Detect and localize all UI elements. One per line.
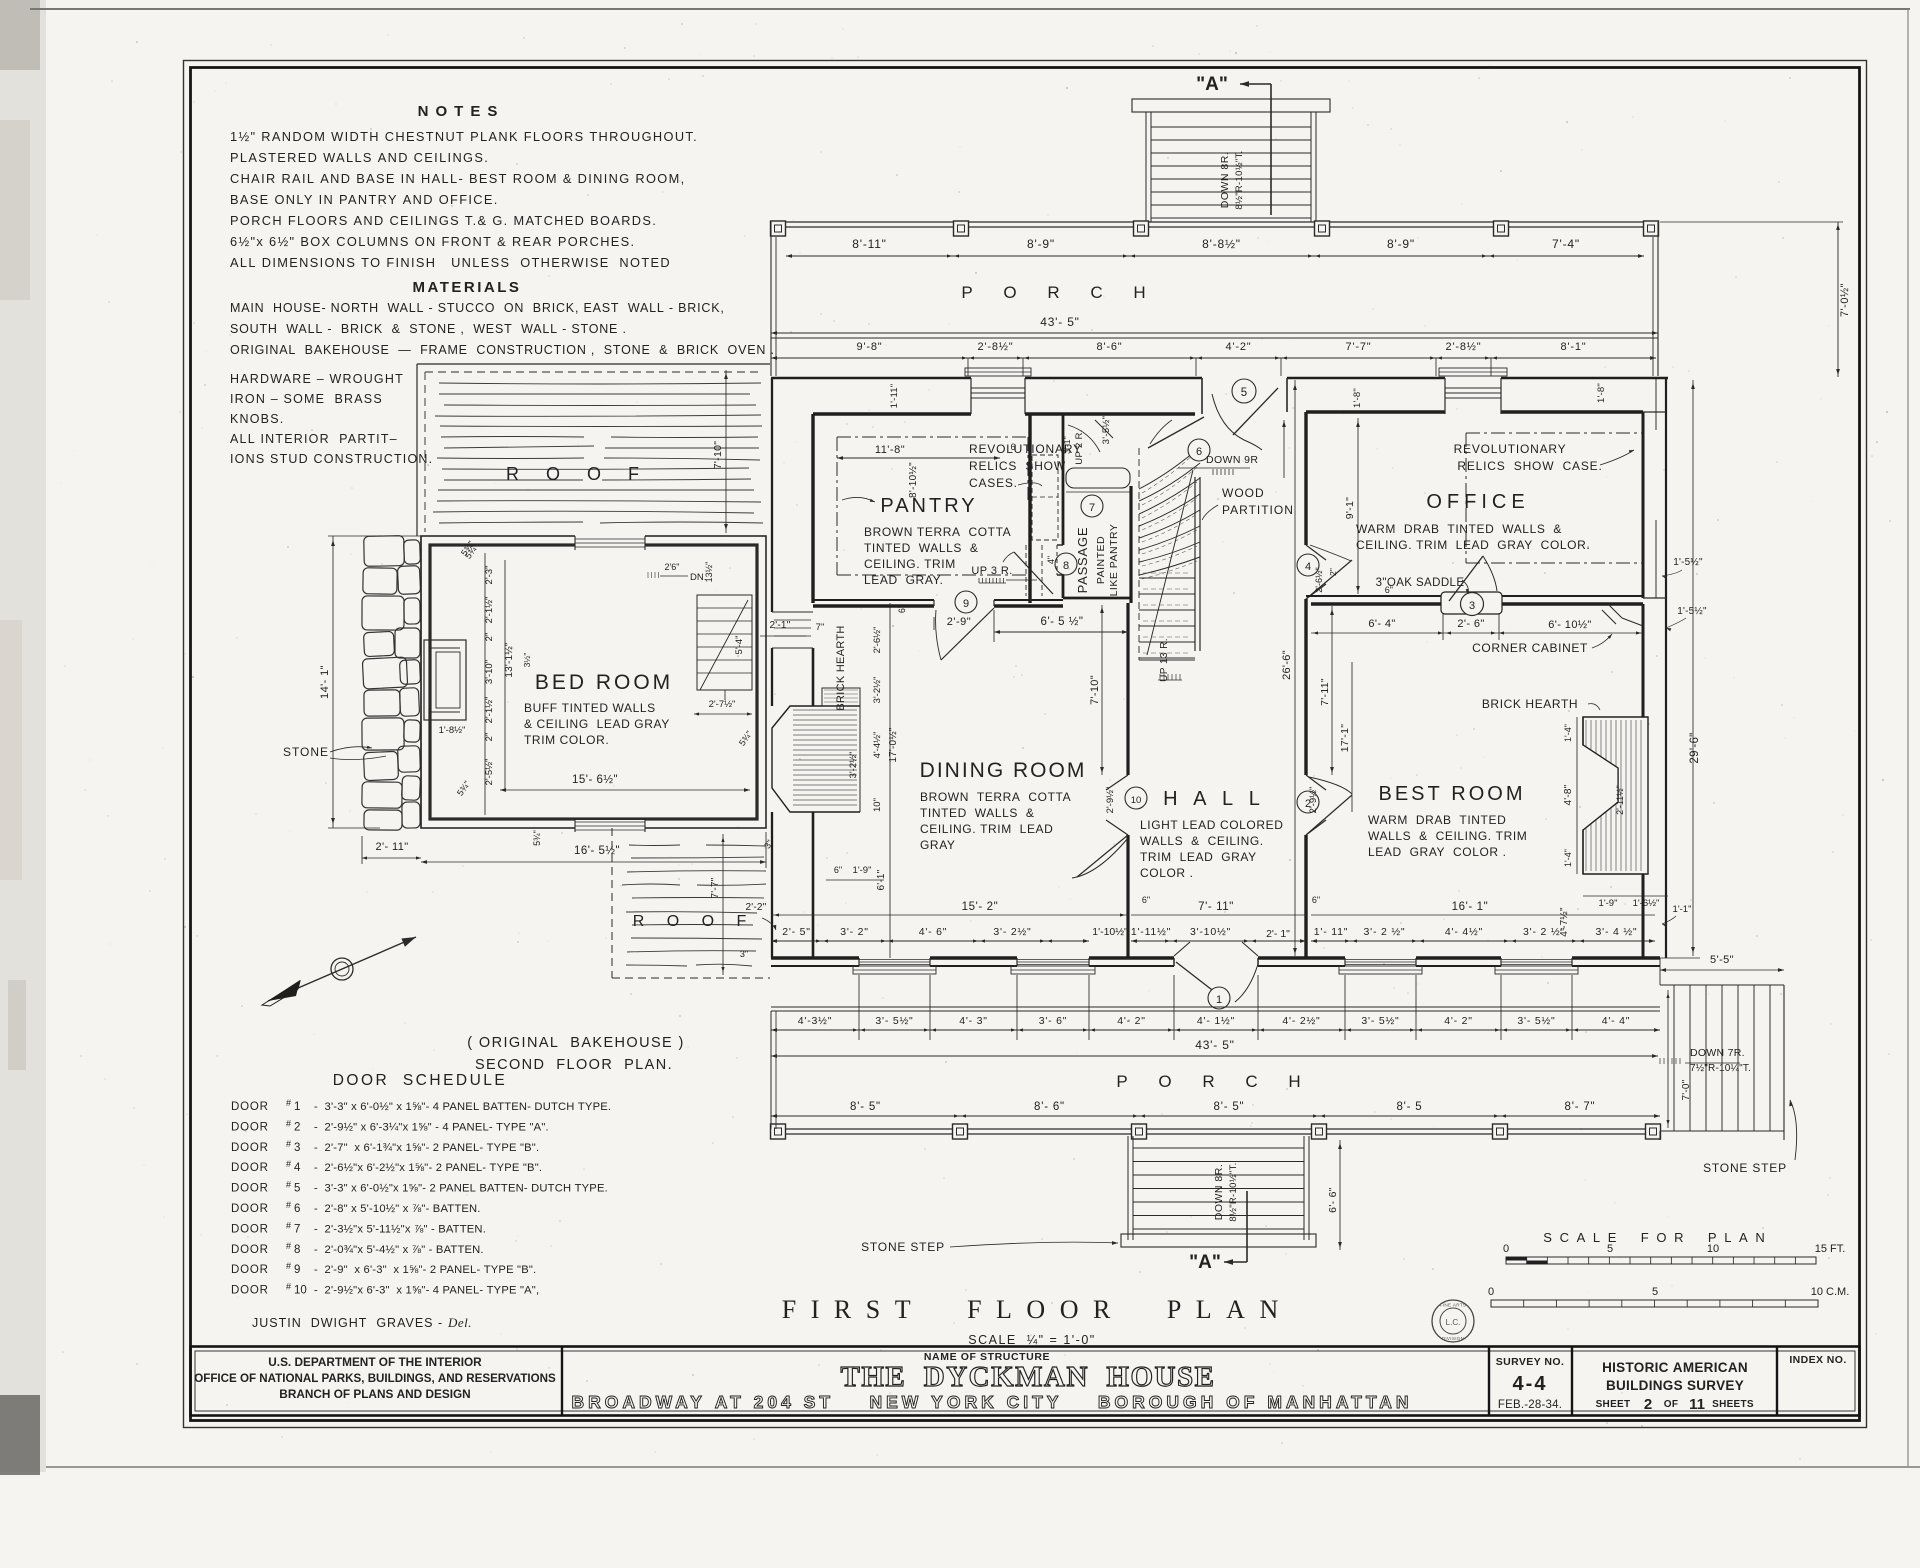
svg-text:7": 7" <box>816 622 825 633</box>
svg-text:Del.: Del. <box>447 1315 472 1330</box>
svg-text:SCALE ¼" = 1'-0": SCALE ¼" = 1'-0" <box>968 1333 1095 1347</box>
svg-text:5: 5 <box>294 1183 300 1195</box>
svg-text:MATERIALS: MATERIALS <box>413 279 522 296</box>
svg-text:TINTED WALLS &: TINTED WALLS & <box>864 541 979 555</box>
svg-text:16'- 5½": 16'- 5½" <box>574 845 620 857</box>
svg-text:TRIM COLOR.: TRIM COLOR. <box>524 733 609 747</box>
svg-text:4'- 2½": 4'- 2½" <box>1282 1015 1320 1027</box>
svg-text:OFFICE: OFFICE <box>1426 491 1529 513</box>
svg-text:4'- 2": 4'- 2" <box>1444 1015 1473 1027</box>
svg-text:1'- 11": 1'- 11" <box>1314 926 1349 938</box>
svg-text:1'-11½": 1'-11½" <box>1131 926 1171 938</box>
svg-text:PORCH FLOORS AND CEILINGS T.&: PORCH FLOORS AND CEILINGS T.& G. MATCHED… <box>230 213 657 228</box>
svg-text:1'-5½": 1'-5½" <box>1673 557 1703 568</box>
svg-text:4'- 3": 4'- 3" <box>959 1015 988 1027</box>
svg-text:SURVEY NO.: SURVEY NO. <box>1496 1356 1565 1368</box>
svg-text:BRICK HEARTH: BRICK HEARTH <box>1482 697 1578 711</box>
svg-text:6'- 5 ½": 6'- 5 ½" <box>1041 616 1084 628</box>
svg-text:2'-2": 2'-2" <box>746 902 767 913</box>
svg-text:15'- 6½": 15'- 6½" <box>572 774 618 786</box>
svg-text:6": 6" <box>834 865 842 875</box>
svg-text:S C A L E F O R P L A N: S C A L E F O R P L A N <box>1543 1230 1766 1245</box>
svg-text:13'-1½": 13'-1½" <box>504 642 515 677</box>
svg-text:"A": "A" <box>1196 74 1228 95</box>
svg-text:CEILING. TRIM LEAD: CEILING. TRIM LEAD <box>920 822 1053 836</box>
svg-text:0: 0 <box>1503 1243 1509 1255</box>
svg-text:#: # <box>286 1159 291 1169</box>
svg-text:1'-1": 1'-1" <box>1673 904 1692 915</box>
svg-text:DOWN 8R.: DOWN 8R. <box>1219 152 1231 209</box>
svg-text:1'-9": 1'-9" <box>1599 898 1618 909</box>
svg-text:6: 6 <box>1196 446 1202 458</box>
svg-text:11'-8": 11'-8" <box>875 444 905 456</box>
svg-text:2'- 6": 2'- 6" <box>1457 618 1484 630</box>
svg-text:NOTES: NOTES <box>418 103 505 120</box>
svg-text:RELICS SHOW: RELICS SHOW <box>969 459 1066 473</box>
svg-text:ALL INTERIOR PARTIT–: ALL INTERIOR PARTIT– <box>230 432 398 446</box>
svg-text:SECOND FLOOR PLAN.: SECOND FLOOR PLAN. <box>475 1057 673 1073</box>
svg-text:"A": "A" <box>1189 1252 1221 1273</box>
svg-text:RELICS SHOW CASE.: RELICS SHOW CASE. <box>1457 459 1602 473</box>
svg-text:DOOR: DOOR <box>231 1203 269 1215</box>
svg-text:GRAY: GRAY <box>920 838 956 852</box>
svg-text:2'-9": 2'-9" <box>947 616 971 628</box>
svg-text:BUFF TINTED WALLS: BUFF TINTED WALLS <box>524 701 656 715</box>
svg-text:CEILING. TRIM LEAD GRAY COL: CEILING. TRIM LEAD GRAY COLOR. <box>1356 538 1590 552</box>
svg-text:WARM DRAB TINTED WALLS &: WARM DRAB TINTED WALLS & <box>1356 522 1562 536</box>
svg-text:26'-6": 26'-6" <box>1281 650 1293 680</box>
svg-text:DOOR: DOOR <box>231 1244 269 1256</box>
svg-text:7'-7": 7'-7" <box>710 877 721 898</box>
svg-text:BASE ONLY IN PANTRY AND OFFICE: BASE ONLY IN PANTRY AND OFFICE. <box>230 192 499 207</box>
svg-text:L.C.: L.C. <box>1446 1318 1461 1327</box>
svg-text:5'-4": 5'-4" <box>734 636 745 655</box>
svg-text:R O O F: R O O F <box>633 913 756 930</box>
svg-text:R O O F: R O O F <box>506 464 650 484</box>
svg-text:- 2'-0¾"x 5'-4½" x ⅞" - BATTE: - 2'-0¾"x 5'-4½" x ⅞" - BATTEN. <box>314 1244 484 1256</box>
svg-text:REVOLUTIONARY: REVOLUTIONARY <box>969 442 1082 456</box>
svg-text:STONE STEP: STONE STEP <box>1703 1161 1787 1175</box>
svg-text:1½" RANDOM WIDTH CHESTNUT PLAN: 1½" RANDOM WIDTH CHESTNUT PLANK FLOORS T… <box>230 129 698 144</box>
svg-text:INDEX NO.: INDEX NO. <box>1789 1354 1846 1366</box>
svg-text:REVOLUTIONARY: REVOLUTIONARY <box>1454 442 1567 456</box>
svg-text:P O R C H: P O R C H <box>961 283 1158 302</box>
svg-text:P O R C H: P O R C H <box>1116 1072 1313 1091</box>
svg-text:6½"x 6½" BOX COLUMNS ON FRONT: 6½"x 6½" BOX COLUMNS ON FRONT & REAR POR… <box>230 234 635 249</box>
svg-text:4'- 4": 4'- 4" <box>1602 1015 1631 1027</box>
svg-text:4'- 6": 4'- 6" <box>919 926 948 938</box>
svg-text:10 C.M.: 10 C.M. <box>1811 1286 1850 1298</box>
svg-text:2'- 5": 2'- 5" <box>782 926 811 938</box>
svg-text:STONE: STONE <box>283 745 329 759</box>
svg-text:FINE ARTS: FINE ARTS <box>1440 1303 1467 1308</box>
svg-text:4'-2": 4'-2" <box>1226 341 1252 353</box>
svg-text:- 2'-9" x 6'-3" x 1⅝"- 2 PA: - 2'-9" x 6'-3" x 1⅝"- 2 PANEL- TYPE "B"… <box>314 1264 536 1276</box>
svg-text:#: # <box>286 1261 291 1271</box>
svg-text:2'-3": 2'-3" <box>484 566 495 585</box>
svg-text:SHEETS: SHEETS <box>1712 1399 1754 1410</box>
svg-text:7'-10": 7'-10" <box>1089 675 1101 705</box>
svg-text:5¾": 5¾" <box>532 830 542 846</box>
svg-text:BRICK HEARTH: BRICK HEARTH <box>835 625 847 710</box>
svg-text:TINTED WALLS &: TINTED WALLS & <box>920 806 1035 820</box>
svg-text:PASSAGE: PASSAGE <box>1075 527 1090 594</box>
svg-text:0: 0 <box>1488 1286 1494 1298</box>
svg-text:2'-1": 2'-1" <box>770 620 791 631</box>
svg-text:6": 6" <box>1142 895 1150 905</box>
svg-text:2": 2" <box>1328 568 1338 576</box>
svg-text:9'-1": 9'-1" <box>1344 497 1356 519</box>
svg-text:2'-1½": 2'-1½" <box>484 597 495 624</box>
svg-text:DOOR: DOOR <box>231 1162 269 1174</box>
svg-text:#: # <box>286 1098 291 1108</box>
svg-text:1'-8": 1'-8" <box>1352 388 1363 408</box>
svg-text:8'-11": 8'-11" <box>852 237 886 251</box>
svg-text:14'- 1": 14'- 1" <box>319 665 331 699</box>
svg-text:10: 10 <box>294 1285 307 1297</box>
svg-text:DOOR: DOOR <box>231 1101 269 1113</box>
svg-text:- 3'-3" x 6'-0½" x 1⅝"- 4 PAN: - 3'-3" x 6'-0½" x 1⅝"- 4 PANEL BATTEN- … <box>314 1101 611 1113</box>
svg-text:3'- 6": 3'- 6" <box>1039 1015 1068 1027</box>
svg-text:3'- 4 ½": 3'- 4 ½" <box>1596 926 1638 938</box>
svg-text:DOOR SCHEDULE: DOOR SCHEDULE <box>333 1072 508 1089</box>
svg-text:9: 9 <box>294 1264 300 1276</box>
svg-text:1'-8½": 1'-8½" <box>439 725 466 736</box>
svg-text:1'-4": 1'-4" <box>1563 849 1573 867</box>
svg-text:43'- 5": 43'- 5" <box>1195 1038 1235 1052</box>
svg-text:7½"R-10¼"T.: 7½"R-10¼"T. <box>1690 1062 1751 1074</box>
svg-text:2": 2" <box>484 733 495 742</box>
svg-text:3: 3 <box>1469 600 1475 612</box>
svg-text:2'-6½": 2'-6½" <box>872 627 883 654</box>
svg-text:2'-8½": 2'-8½" <box>1446 341 1482 353</box>
svg-text:7'-0": 7'-0" <box>1681 1079 1692 1100</box>
svg-text:BEST ROOM: BEST ROOM <box>1378 783 1525 805</box>
svg-text:3'-2½": 3'-2½" <box>872 677 883 704</box>
svg-text:- 2'-9½" x 6'-3¼"x 1⅝" - 4 PA: - 2'-9½" x 6'-3¼"x 1⅝" - 4 PANEL- TYPE "… <box>314 1121 549 1133</box>
svg-text:7'- 11": 7'- 11" <box>1198 901 1234 913</box>
svg-text:1'-4": 1'-4" <box>1563 724 1573 742</box>
svg-text:IONS STUD CONSTRUCTION.: IONS STUD CONSTRUCTION. <box>230 452 433 466</box>
svg-text:- 3'-3" x 6'-0½"x 1⅝"- 2 PANE: - 3'-3" x 6'-0½"x 1⅝"- 2 PANEL BATTEN- D… <box>314 1183 608 1195</box>
svg-text:3'- 5½": 3'- 5½" <box>1517 1015 1555 1027</box>
svg-text:6'- 6": 6'- 6" <box>1327 1187 1339 1213</box>
svg-text:DOOR: DOOR <box>231 1223 269 1235</box>
svg-text:15 FT.: 15 FT. <box>1815 1243 1846 1255</box>
svg-text:2'-1½": 2'-1½" <box>484 697 495 724</box>
svg-text:2'- 1": 2'- 1" <box>1266 928 1290 940</box>
svg-text:8'- 5": 8'- 5" <box>1214 1101 1245 1113</box>
svg-text:4'-8": 4'-8" <box>1563 784 1574 805</box>
svg-text:PLASTERED WALLS AND CEILINGS.: PLASTERED WALLS AND CEILINGS. <box>230 150 489 165</box>
svg-text:CASES.: CASES. <box>969 476 1018 490</box>
svg-text:CEILING. TRIM: CEILING. TRIM <box>864 557 956 571</box>
svg-text:DIVISION: DIVISION <box>1442 1336 1465 1341</box>
svg-text:6'- 10½": 6'- 10½" <box>1548 619 1591 631</box>
svg-text:HISTORIC AMERICAN: HISTORIC AMERICAN <box>1602 1360 1748 1375</box>
svg-text:( ORIGINAL BAKEHOUSE ): ( ORIGINAL BAKEHOUSE ) <box>467 1035 685 1051</box>
svg-text:10: 10 <box>1707 1243 1719 1255</box>
svg-text:F I R S T F L O O R P: F I R S T F L O O R P L A N <box>782 1295 1282 1324</box>
svg-text:7'-7": 7'-7" <box>1346 341 1372 353</box>
svg-text:CORNER CABINET: CORNER CABINET <box>1472 641 1588 655</box>
svg-text:PANTRY: PANTRY <box>880 495 977 517</box>
svg-text:1'-11": 1'-11" <box>889 384 900 409</box>
svg-text:ALL DIMENSIONS TO FINISH UNL: ALL DIMENSIONS TO FINISH UNLESS OTHERWIS… <box>230 255 671 270</box>
svg-text:3½": 3½" <box>522 653 532 668</box>
svg-text:3'-10½": 3'-10½" <box>1190 926 1231 938</box>
svg-text:#: # <box>286 1139 291 1149</box>
svg-text:4": 4" <box>1046 556 1056 564</box>
svg-text:FEB.-28-34.: FEB.-28-34. <box>1498 1399 1562 1411</box>
svg-text:- 2'-3½"x 5'-11½"x ⅞" - BATTE: - 2'-3½"x 5'-11½"x ⅞" - BATTEN. <box>314 1223 486 1235</box>
svg-text:9'-8": 9'-8" <box>857 341 883 353</box>
svg-text:1'-9": 1'-9" <box>853 865 872 876</box>
svg-text:2'- 11": 2'- 11" <box>375 841 408 853</box>
svg-text:6'- 4": 6'- 4" <box>1368 618 1395 630</box>
svg-text:8'- 6": 8'- 6" <box>1034 1101 1065 1113</box>
svg-text:DOWN 9R: DOWN 9R <box>1206 454 1258 466</box>
svg-text:WARM DRAB TINTED: WARM DRAB TINTED <box>1368 813 1506 827</box>
svg-text:8'- 7": 8'- 7" <box>1565 1101 1596 1113</box>
svg-text:LEAD GRAY COLOR .: LEAD GRAY COLOR . <box>1368 845 1507 859</box>
svg-text:DOOR: DOOR <box>231 1142 269 1154</box>
svg-text:3'- 2": 3'- 2" <box>840 926 869 938</box>
svg-text:8½"R-10½"T.: 8½"R-10½"T. <box>1234 150 1245 209</box>
svg-text:#: # <box>286 1118 291 1128</box>
svg-text:BROWN TERRA COTTA: BROWN TERRA COTTA <box>920 790 1071 804</box>
svg-text:5: 5 <box>1607 1243 1613 1255</box>
svg-text:H A L L: H A L L <box>1163 788 1265 810</box>
svg-text:2'-8½": 2'-8½" <box>978 341 1014 353</box>
svg-text:IRON – SOME BRASS: IRON – SOME BRASS <box>230 392 383 406</box>
svg-text:3'- 2 ½": 3'- 2 ½" <box>1523 926 1565 938</box>
svg-text:BUILDINGS SURVEY: BUILDINGS SURVEY <box>1606 1378 1744 1393</box>
svg-text:SHEET: SHEET <box>1596 1399 1631 1410</box>
svg-text:7: 7 <box>1089 502 1095 514</box>
svg-text:MAIN HOUSE- NORTH WALL - STU: MAIN HOUSE- NORTH WALL - STUCCO ON BRICK… <box>230 301 725 315</box>
svg-text:8'-8½": 8'-8½" <box>1202 237 1241 251</box>
svg-text:- 2'-6½"x 6'-2½"x 1⅝"- 2 PANE: - 2'-6½"x 6'-2½"x 1⅝"- 2 PANEL- TYPE "B"… <box>314 1162 542 1174</box>
svg-text:2: 2 <box>1644 1396 1652 1413</box>
svg-text:2'-6½": 2'-6½" <box>1314 567 1324 592</box>
svg-text:4'- 4½": 4'- 4½" <box>1445 926 1483 938</box>
svg-text:DINING ROOM: DINING ROOM <box>920 759 1087 782</box>
svg-text:7'-11": 7'-11" <box>1319 678 1331 706</box>
svg-text:3'- 5½": 3'- 5½" <box>875 1015 913 1027</box>
svg-text:3'- 5½": 3'- 5½" <box>1361 1015 1399 1027</box>
svg-text:- 2'-7" x 6'-1¾"x 1⅝"- 2 PAN: - 2'-7" x 6'-1¾"x 1⅝"- 2 PANEL- TYPE "B"… <box>314 1142 539 1154</box>
svg-text:WALLS & CEILING. TRIM: WALLS & CEILING. TRIM <box>1368 829 1527 843</box>
svg-text:- 2'-8" x 5'-10½" x ⅞"- BATTE: - 2'-8" x 5'-10½" x ⅞"- BATTEN. <box>314 1203 481 1215</box>
svg-text:29'-6": 29'-6" <box>1689 732 1701 763</box>
svg-text:8½"R-10½"T.: 8½"R-10½"T. <box>1228 1162 1239 1221</box>
svg-text:11: 11 <box>1689 1396 1705 1413</box>
svg-text:KNOBS.: KNOBS. <box>230 412 284 426</box>
svg-text:LIKE PANTRY: LIKE PANTRY <box>1108 524 1120 597</box>
svg-text:8: 8 <box>294 1244 300 1256</box>
svg-text:DOOR: DOOR <box>231 1285 269 1297</box>
svg-text:BED ROOM: BED ROOM <box>535 671 673 694</box>
svg-text:4'-4½": 4'-4½" <box>872 732 883 759</box>
svg-text:8: 8 <box>1063 560 1069 572</box>
svg-text:DOWN 8R.: DOWN 8R. <box>1213 1164 1225 1221</box>
svg-text:- 2'-9½"x 6'-3" x 1⅝"- 4 PAN: - 2'-9½"x 6'-3" x 1⅝"- 4 PANEL- TYPE "A"… <box>314 1285 539 1297</box>
svg-text:PAINTED: PAINTED <box>1095 536 1107 584</box>
svg-text:BRANCH OF PLANS AND DESIGN: BRANCH OF PLANS AND DESIGN <box>279 1387 470 1401</box>
svg-text:LEAD GRAY.: LEAD GRAY. <box>864 573 944 587</box>
svg-text:LIGHT LEAD COLORED: LIGHT LEAD COLORED <box>1140 818 1284 832</box>
svg-text:2'-9½": 2'-9½" <box>1308 787 1319 814</box>
svg-text:2'-11½": 2'-11½" <box>1615 785 1625 815</box>
svg-text:4: 4 <box>294 1162 301 1174</box>
svg-text:BROWN TERRA COTTA: BROWN TERRA COTTA <box>864 525 1011 539</box>
svg-text:6: 6 <box>294 1203 300 1215</box>
svg-text:3'-10": 3'-10" <box>484 660 495 684</box>
svg-text:THE DYCKMAN HOUSE: THE DYCKMAN HOUSE <box>841 1361 1216 1393</box>
svg-text:9: 9 <box>963 598 969 610</box>
svg-text:5: 5 <box>1241 387 1247 399</box>
svg-text:3'- 2 ½": 3'- 2 ½" <box>1364 926 1406 938</box>
svg-text:7'-0½": 7'-0½" <box>1839 283 1851 317</box>
svg-text:10: 10 <box>1131 795 1142 806</box>
svg-text:#: # <box>286 1241 291 1251</box>
svg-text:DOWN 7R.: DOWN 7R. <box>1690 1047 1745 1059</box>
svg-text:CHAIR RAIL AND BASE IN HALL- B: CHAIR RAIL AND BASE IN HALL- BEST ROOM &… <box>230 171 686 186</box>
svg-text:DOOR: DOOR <box>231 1121 269 1133</box>
svg-text:TRIM LEAD GRAY: TRIM LEAD GRAY <box>1140 850 1257 864</box>
svg-text:4-4: 4-4 <box>1513 1373 1548 1395</box>
svg-text:2'-9½": 2'-9½" <box>1105 787 1116 814</box>
svg-text:WOOD: WOOD <box>1222 486 1265 500</box>
svg-text:8'-9": 8'-9" <box>1387 237 1415 251</box>
svg-text:3'-2½": 3'-2½" <box>848 752 859 779</box>
svg-text:8'- 5: 8'- 5 <box>1396 1101 1422 1113</box>
svg-text:OFFICE OF NATIONAL PARKS, BUIL: OFFICE OF NATIONAL PARKS, BUILDINGS, AND… <box>194 1372 556 1385</box>
svg-text:8'-6": 8'-6" <box>1097 341 1123 353</box>
svg-text:2'6": 2'6" <box>665 562 680 572</box>
svg-text:#: # <box>286 1282 291 1292</box>
svg-text:3: 3 <box>294 1142 300 1154</box>
svg-text:DOOR: DOOR <box>231 1183 269 1195</box>
svg-text:COLOR .: COLOR . <box>1140 866 1194 880</box>
svg-text:#: # <box>286 1220 291 1230</box>
svg-text:BROADWAY AT 204 ST NEW YORK: BROADWAY AT 204 ST NEW YORK CITY BOROUGH… <box>571 1392 1412 1412</box>
svg-text:1'-6½": 1'-6½" <box>1633 898 1660 909</box>
svg-text:WALLS & CEILING.: WALLS & CEILING. <box>1140 834 1264 848</box>
svg-text:8'-10½": 8'-10½" <box>908 462 919 498</box>
svg-text:HARDWARE – WROUGHT: HARDWARE – WROUGHT <box>230 372 404 386</box>
svg-text:2'-5½": 2'-5½" <box>484 759 495 786</box>
svg-text:PARTITION: PARTITION <box>1222 503 1294 517</box>
svg-text:ORIGINAL BAKEHOUSE — FRAME: ORIGINAL BAKEHOUSE — FRAME CONSTRUCTION … <box>230 343 775 357</box>
svg-text:17'-1": 17'-1" <box>1339 724 1351 753</box>
svg-text:2": 2" <box>484 633 495 642</box>
svg-text:4'- 2": 4'- 2" <box>1117 1015 1146 1027</box>
svg-text:4'- 1½": 4'- 1½" <box>1197 1015 1235 1027</box>
svg-text:JUSTIN DWIGHT GRAVES -: JUSTIN DWIGHT GRAVES - <box>252 1316 443 1330</box>
svg-text:SOUTH WALL - BRICK & STONE: SOUTH WALL - BRICK & STONE , WEST WALL -… <box>230 322 627 336</box>
svg-text:6": 6" <box>1385 585 1393 595</box>
svg-text:10": 10" <box>872 798 883 812</box>
svg-text:OF: OF <box>1664 1399 1679 1410</box>
svg-text:1'-5½": 1'-5½" <box>1677 606 1707 617</box>
svg-text:13½": 13½" <box>704 562 714 583</box>
svg-text:3'- 2½": 3'- 2½" <box>993 926 1031 938</box>
svg-text:3": 3" <box>740 949 748 959</box>
svg-text:& CEILING LEAD GRAY: & CEILING LEAD GRAY <box>524 717 670 731</box>
svg-text:6": 6" <box>897 605 907 613</box>
svg-text:2: 2 <box>294 1121 300 1133</box>
svg-text:15'- 2": 15'- 2" <box>962 901 999 913</box>
svg-text:U.S. DEPARTMENT OF THE INTERIO: U.S. DEPARTMENT OF THE INTERIOR <box>268 1355 482 1369</box>
svg-text:1: 1 <box>1216 994 1222 1006</box>
svg-text:1'-8": 1'-8" <box>1596 383 1607 403</box>
svg-text:6": 6" <box>1312 895 1320 905</box>
svg-text:8'-9": 8'-9" <box>1027 237 1055 251</box>
svg-text:7: 7 <box>294 1223 300 1235</box>
svg-text:2'-7½": 2'-7½" <box>709 699 736 710</box>
svg-text:43'- 5": 43'- 5" <box>1040 315 1080 329</box>
svg-text:5: 5 <box>1652 1286 1658 1298</box>
svg-text:1: 1 <box>294 1101 300 1113</box>
svg-text:5'-5": 5'-5" <box>1710 954 1734 966</box>
svg-text:DOOR: DOOR <box>231 1264 269 1276</box>
svg-text:#: # <box>286 1180 291 1190</box>
svg-text:8'-1": 8'-1" <box>1561 341 1587 353</box>
svg-text:4'-3½": 4'-3½" <box>798 1015 832 1027</box>
svg-text:4: 4 <box>1305 561 1311 573</box>
svg-text:7'-4": 7'-4" <box>1552 237 1580 251</box>
svg-text:#: # <box>286 1200 291 1210</box>
svg-text:8'- 5": 8'- 5" <box>850 1101 881 1113</box>
svg-text:1'-10½": 1'-10½" <box>1092 926 1128 938</box>
svg-text:7'-10": 7'-10" <box>712 441 724 470</box>
svg-text:16'- 1": 16'- 1" <box>1452 901 1489 913</box>
svg-text:3'-5½": 3'-5½" <box>1101 416 1112 445</box>
svg-text:STONE STEP: STONE STEP <box>861 1240 945 1254</box>
